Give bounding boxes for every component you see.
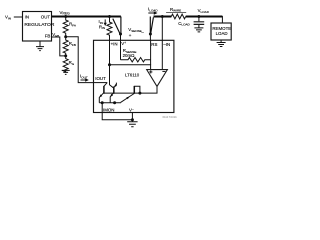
- node V-/IMON junction dot: [131, 118, 134, 121]
- transistor Q3: [121, 86, 140, 103]
- ground (regulator): [36, 41, 44, 51]
- resistor RFB: [63, 37, 76, 56]
- svg-text:–IN: –IN: [163, 42, 170, 47]
- wire -IN internal vertical to op-amp -: [161, 40, 163, 69]
- capacitor CLOAD: [178, 17, 204, 28]
- node emitter rail dot1: [101, 101, 104, 104]
- wire FB pin to RFB/RG junction: [52, 37, 66, 56]
- svg-text:6110 TA01b: 6110 TA01b: [163, 115, 178, 119]
- wire RS funnel taper: [150, 17, 153, 35]
- transistor Q1: [99, 83, 107, 103]
- ground (V-): [127, 120, 137, 127]
- svg-text:RIN: RIN: [99, 24, 105, 30]
- svg-text:RFB: RFB: [69, 41, 76, 47]
- op-amp chip LT6110 box: [94, 40, 174, 112]
- svg-text:VREG: VREG: [59, 10, 70, 16]
- wire VLOAD to remote load: [221, 16, 223, 23]
- svg-text:RG: RG: [69, 60, 75, 66]
- wire emitter rail: [99, 102, 121, 104]
- svg-text:RWIRE: RWIRE: [170, 7, 181, 13]
- ILOAD label and arrow: [148, 7, 158, 15]
- svg-text:IOUT: IOUT: [95, 76, 106, 81]
- svg-text:IOUT: IOUT: [80, 74, 88, 80]
- svg-text:+IN: +IN: [111, 42, 118, 47]
- svg-text:VLOAD: VLOAD: [198, 8, 210, 14]
- node VREG label: [59, 10, 70, 16]
- svg-text:OUT: OUT: [41, 15, 51, 20]
- ground (RG): [62, 70, 70, 74]
- wire +IN row to op-amp + input: [110, 65, 151, 70]
- node VFB label: [52, 32, 59, 38]
- transistor Q2: [110, 65, 118, 103]
- svg-text:CLOAD: CLOAD: [178, 21, 190, 27]
- node VSENSE annotation: [128, 27, 144, 38]
- resistor RSENSE 20mOhm: [121, 48, 151, 62]
- node base rail junction dot: [138, 92, 141, 95]
- resistor RFA: [63, 17, 77, 37]
- node RFA/RFB junction dot (IOUT tie): [64, 35, 67, 38]
- wire IOUT internal: [94, 82, 108, 84]
- wire VIN to regulator IN: [14, 16, 23, 18]
- regulator U1 box: [23, 12, 55, 42]
- IOUT external label and arrow: [80, 74, 89, 82]
- svg-text:+: +: [129, 33, 132, 38]
- svg-text:VSENSE: VSENSE: [128, 27, 141, 33]
- ground (CLOAD): [194, 28, 203, 32]
- wire -IN pin vertical: [161, 17, 163, 41]
- svg-text:IN: IN: [25, 15, 29, 20]
- resistor RWIRE: [166, 7, 186, 19]
- svg-text:VIN: VIN: [5, 15, 11, 21]
- wire +IN internal vertical: [109, 40, 111, 65]
- wire RS pin stub: [149, 34, 151, 40]
- node VLOAD junction dot: [197, 15, 200, 18]
- wire V- pin external: [131, 113, 133, 120]
- node +IN junction dot: [108, 63, 111, 66]
- ground (remote load): [217, 40, 226, 47]
- wire load rail (thick) RS to remote load: [154, 15, 172, 17]
- node V+ kelvin dot: [119, 33, 122, 36]
- node -IN junction dot: [161, 15, 164, 18]
- node VREG junction dot: [64, 15, 67, 18]
- svg-text:REMOTE: REMOTE: [212, 26, 231, 31]
- svg-text:RS: RS: [151, 42, 157, 47]
- remote load box: [211, 23, 231, 40]
- node emitter rail dot2: [113, 101, 116, 104]
- wire V+ pin stub: [120, 34, 122, 40]
- wire VREG rail (thick) from OUT to V+ funnel: [52, 15, 121, 17]
- svg-text:IMON: IMON: [103, 108, 114, 113]
- svg-text:LOAD: LOAD: [216, 31, 228, 36]
- node VIN label: [5, 15, 11, 21]
- svg-text:FB: FB: [45, 33, 51, 38]
- wire junction to IOUT corner: [66, 37, 94, 83]
- resistor RIN: [99, 17, 112, 41]
- wire V+ funnel taper: [113, 17, 121, 35]
- node RFB/RG junction dot: [64, 54, 67, 57]
- op-amp A1: [147, 70, 168, 87]
- IIN label and arrow: [99, 19, 107, 26]
- svg-text:ILOAD: ILOAD: [148, 7, 158, 13]
- node VLOAD label: [198, 8, 210, 14]
- svg-text:20mΩ: 20mΩ: [123, 53, 136, 58]
- wire V+ internal vertical: [120, 40, 122, 59]
- node RS kelvin dot: [149, 33, 152, 36]
- svg-text:RFA: RFA: [69, 22, 77, 28]
- wire RS internal vertical: [150, 40, 152, 65]
- resistor RG: [63, 56, 75, 72]
- wire IMON pin external: [102, 103, 132, 120]
- svg-text:REGULATOR: REGULATOR: [24, 22, 54, 28]
- svg-text:LT6110: LT6110: [125, 72, 140, 77]
- wire op-amp output to base rail: [104, 86, 157, 93]
- node RIN top junction dot: [108, 15, 111, 18]
